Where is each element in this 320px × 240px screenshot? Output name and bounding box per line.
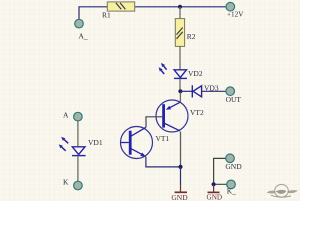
resistor R2	[175, 19, 184, 47]
wire GND pin to K_ pin	[214, 158, 227, 184]
pin lead junction to VT2	[179, 93, 181, 103]
svg-text:R2: R2	[187, 32, 196, 41]
ground GND1	[175, 184, 187, 192]
svg-text:K_: K_	[227, 186, 236, 195]
wire from pin A_ up and right to R1	[79, 7, 107, 22]
pin lead VD1 to K	[77, 156, 79, 181]
pin K	[74, 181, 83, 190]
svg-text:GND: GND	[171, 193, 188, 201]
watermark logo	[267, 184, 298, 197]
svg-text:VD1: VD1	[88, 138, 103, 147]
pin lead junction to R2	[179, 7, 181, 19]
transistor VT1	[121, 127, 153, 159]
pin A	[74, 112, 83, 121]
diode VD2 (LED)	[159, 63, 187, 79]
pin lead VT2 emitter down	[180, 132, 182, 167]
pin A_	[75, 19, 84, 28]
wire junction to VD3	[180, 90, 192, 92]
svg-text:R1: R1	[102, 11, 111, 20]
pin OUT	[226, 87, 235, 96]
svg-text:VT2: VT2	[190, 108, 204, 117]
pin lead R2 to VD2	[179, 46, 181, 69]
wire VT1 emitter to bottom junction	[146, 157, 181, 167]
junction top node	[178, 5, 182, 9]
svg-text:OUT: OUT	[226, 95, 242, 104]
wire from R1 to +12V pin	[135, 6, 226, 8]
ground GND2	[208, 185, 220, 192]
wire VD3 to OUT pin	[202, 90, 226, 92]
junction bottom node	[178, 165, 182, 169]
wire junction down to ground	[180, 167, 182, 185]
svg-text:A: A	[63, 110, 69, 119]
pin lead VD2 to mid junction	[179, 79, 181, 90]
pin GND	[226, 154, 235, 163]
svg-text:+12V: +12V	[227, 11, 244, 19]
pin +12V	[226, 2, 235, 11]
svg-text:VT1: VT1	[156, 134, 170, 143]
diode VD1 (LED)	[59, 137, 86, 156]
pin lead A to VD1	[77, 121, 79, 147]
svg-text:K: K	[63, 177, 69, 186]
resistor R1	[107, 2, 134, 11]
svg-text:VD2: VD2	[188, 69, 203, 78]
pin K_	[227, 180, 236, 189]
junction mid node	[178, 89, 182, 93]
svg-text:GND: GND	[207, 194, 223, 201]
transistor VT2	[156, 100, 188, 132]
diode VD3	[192, 85, 201, 97]
svg-text:GND: GND	[225, 162, 242, 171]
wire VT1 collector to VT2 base	[146, 117, 162, 127]
svg-text:A_: A_	[79, 32, 88, 41]
junction right node	[212, 182, 216, 186]
